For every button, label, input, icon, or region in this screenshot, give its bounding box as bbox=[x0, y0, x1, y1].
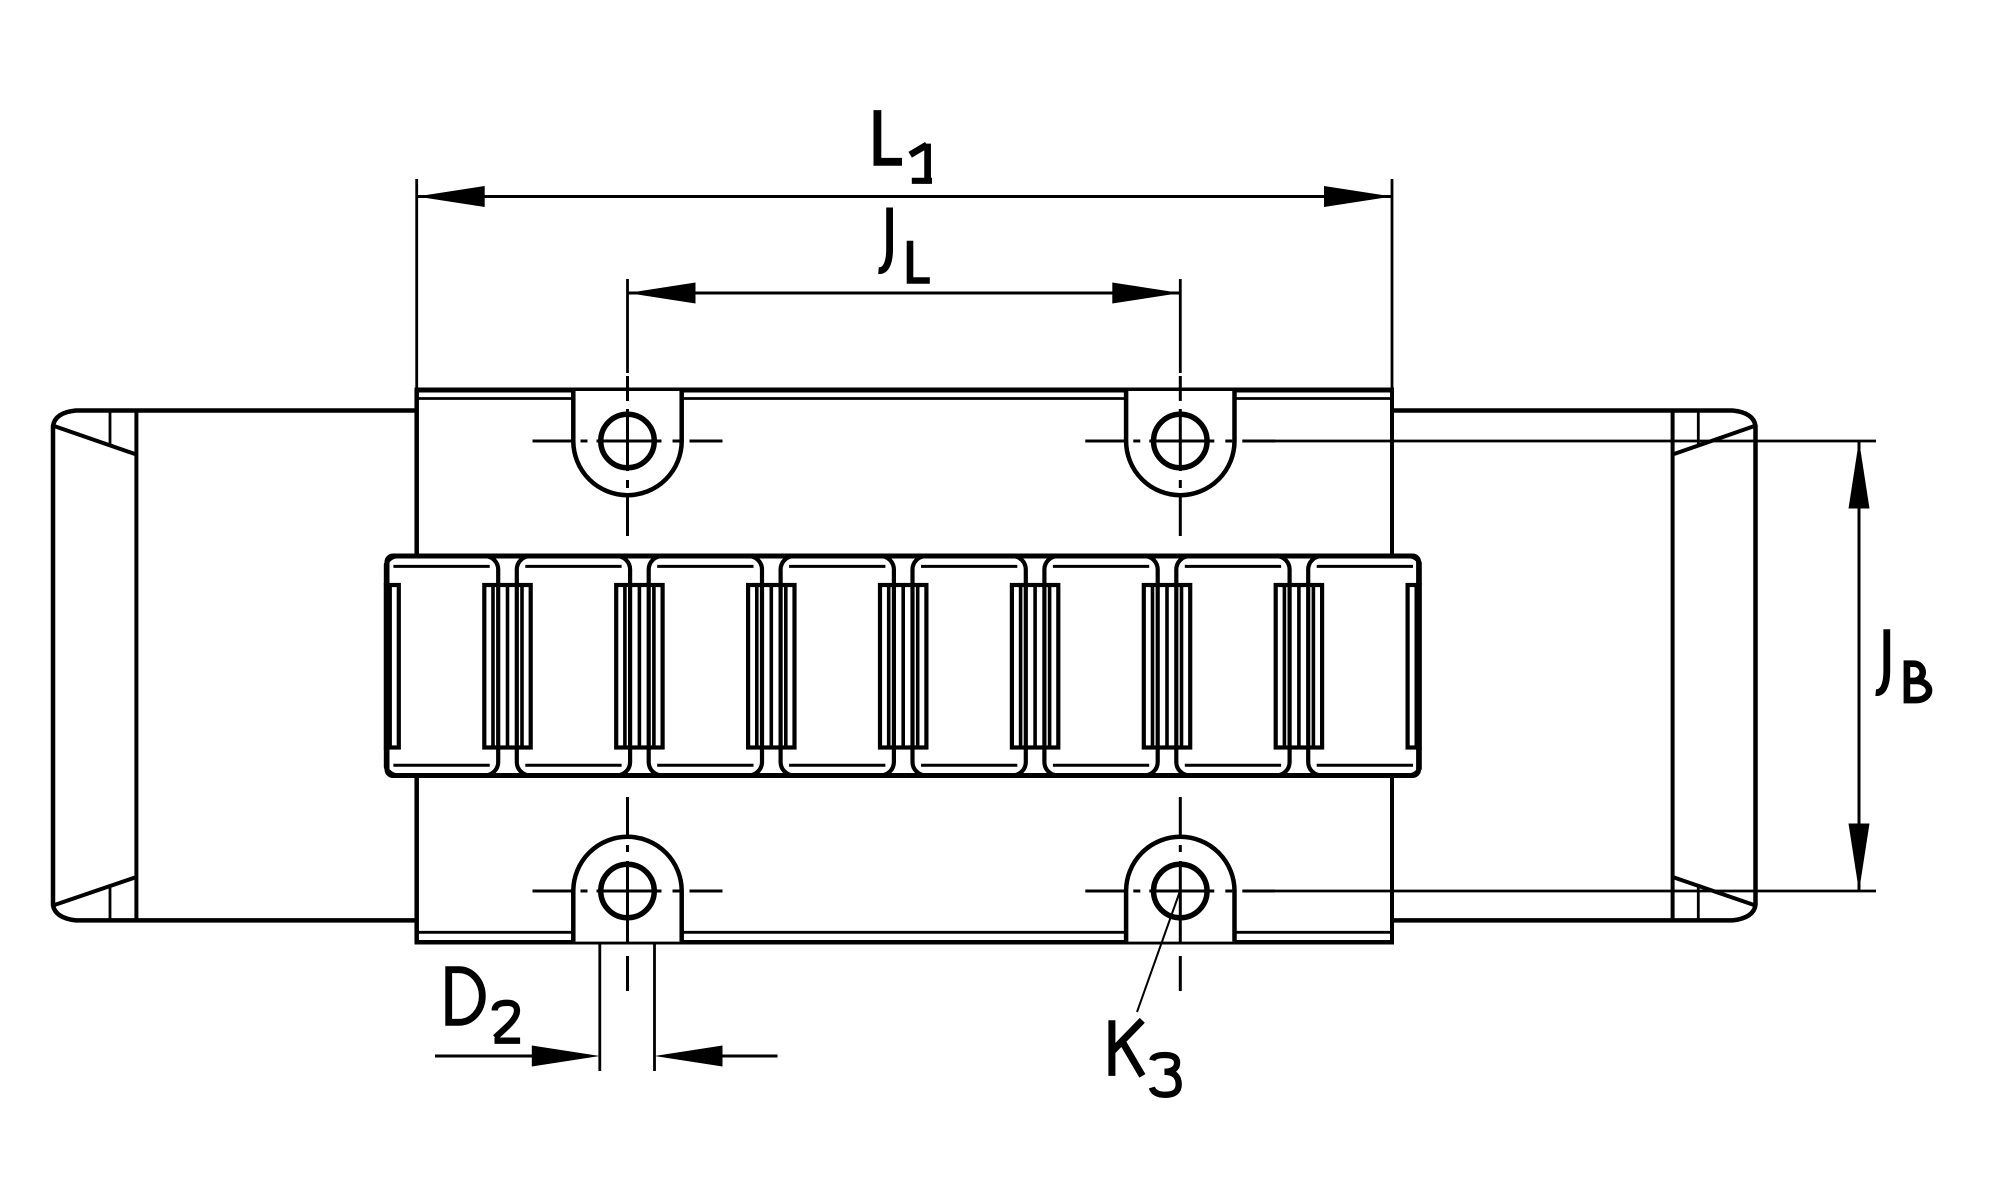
dimension L1 line and arrows bbox=[417, 186, 1392, 207]
roller 2 bbox=[484, 585, 530, 748]
leader line K3 bbox=[1137, 893, 1180, 1013]
roller 5 bbox=[880, 585, 926, 748]
crosshair top-left hole bbox=[533, 376, 723, 536]
hole bottom-right bbox=[1154, 864, 1208, 918]
mounting lug top-left bbox=[573, 391, 681, 495]
roller 1 bbox=[352, 585, 398, 748]
roller 8 bbox=[1276, 585, 1322, 748]
roller 7 bbox=[1144, 585, 1190, 748]
roller band frame bbox=[387, 556, 1419, 776]
cage plate 3 bbox=[649, 556, 762, 776]
shaft left end outline bbox=[53, 411, 417, 921]
dimension D2 extension lines bbox=[600, 942, 655, 1071]
carriage top edge bbox=[415, 388, 1395, 393]
cage plate 6 bbox=[1044, 556, 1157, 776]
hole top-right bbox=[1154, 414, 1208, 468]
hole bottom-left bbox=[601, 864, 655, 918]
dimension JL extension lines bbox=[628, 279, 1181, 373]
carriage top inner line bbox=[417, 397, 1392, 400]
cage plate 2 bbox=[517, 556, 630, 776]
crosshair bottom-right hole bbox=[1085, 797, 1275, 991]
shaft left chamfer ticks bbox=[109, 411, 112, 921]
dimension JB extension lines bbox=[1246, 441, 1876, 891]
cage plate 5 bbox=[913, 556, 1026, 776]
dimension L1 extension lines bbox=[417, 179, 1392, 390]
label JB bbox=[1876, 629, 1929, 703]
crosshair bottom-left hole bbox=[533, 797, 723, 991]
carriage right edge bbox=[1390, 390, 1394, 942]
dimension D2 line and arrows bbox=[435, 1046, 778, 1067]
label L1 bbox=[877, 110, 932, 181]
label D2 bbox=[445, 966, 520, 1040]
label JL bbox=[879, 208, 930, 281]
roller 3 bbox=[616, 585, 662, 748]
shaft right chamfer diagonals bbox=[1673, 426, 1756, 906]
shaft left chamfer diagonals bbox=[53, 426, 136, 906]
roller 4 bbox=[748, 585, 794, 748]
carriage bottom inner line bbox=[417, 931, 1392, 934]
label K3 bbox=[1112, 1020, 1179, 1095]
roller 6 bbox=[1012, 585, 1058, 748]
mounting lug bottom-right bbox=[1126, 837, 1234, 942]
carriage left edge bbox=[414, 390, 419, 942]
crosshair top-right hole bbox=[1085, 376, 1275, 536]
mounting lug top-right bbox=[1126, 391, 1234, 495]
shaft right end outline bbox=[1392, 411, 1756, 921]
shaft left chamfer edge line bbox=[134, 411, 138, 921]
hole top-left bbox=[601, 414, 655, 468]
shaft right chamfer edge line bbox=[1671, 411, 1675, 921]
cage plate 8 bbox=[1308, 556, 1421, 776]
carriage bottom edge bbox=[415, 940, 1395, 945]
dimension JB line and arrows bbox=[1849, 441, 1870, 892]
cage plate 1 bbox=[385, 556, 498, 776]
roller 9 bbox=[1408, 585, 1454, 748]
shaft right chamfer ticks bbox=[1697, 411, 1700, 921]
cage plate 7 bbox=[1176, 556, 1289, 776]
dimension JL line and arrows bbox=[628, 283, 1181, 304]
mounting lug bottom-left bbox=[573, 837, 681, 942]
cage plate 4 bbox=[781, 556, 894, 776]
